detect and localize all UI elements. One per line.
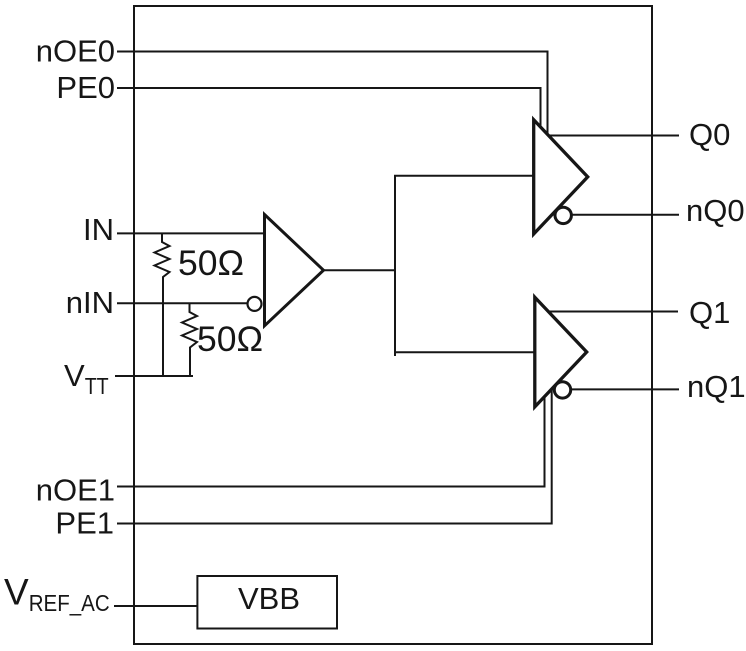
svg-text:PE0: PE0: [56, 70, 115, 105]
svg-text:PE1: PE1: [55, 506, 114, 541]
VBB block: [197, 576, 337, 629]
wire VTT: [115, 375, 193, 377]
wire U1 output: [324, 269, 396, 271]
svg-text:Q0: Q0: [689, 117, 730, 152]
svg-text:nQ0: nQ0: [686, 193, 745, 228]
svg-text:nOE1: nOE1: [36, 473, 115, 508]
svg-text:VTT: VTT: [64, 358, 109, 399]
wire PE1: [117, 390, 552, 524]
svg-text:nQ1: nQ1: [687, 369, 746, 404]
wire nOE1: [117, 397, 545, 487]
wire VREF_AC: [114, 605, 198, 607]
output buffer U2: [534, 120, 588, 234]
svg-text:Q1: Q1: [689, 295, 730, 330]
svg-text:50Ω: 50Ω: [178, 243, 244, 283]
svg-text:IN: IN: [83, 212, 114, 247]
wire Q1: [549, 311, 678, 313]
svg-text:VBB: VBB: [238, 581, 300, 616]
svg-text:nIN: nIN: [66, 285, 114, 320]
bubble U2: [555, 207, 571, 223]
resistor R1: [155, 233, 170, 376]
wire bus to U2: [394, 175, 534, 177]
outer box: [134, 6, 652, 644]
wire IN: [117, 232, 265, 234]
svg-text:VREF_AC: VREF_AC: [4, 572, 110, 617]
wire Q0: [548, 135, 679, 137]
bubble U3: [554, 382, 570, 398]
wire nQ0: [572, 214, 680, 216]
resistor R2: [182, 303, 197, 376]
wire nQ1: [571, 388, 679, 390]
wire PE0: [117, 88, 541, 128]
svg-text:50Ω: 50Ω: [197, 319, 263, 359]
wire bus to U3: [394, 351, 535, 353]
bubble U1 input: [248, 297, 262, 311]
output buffer U3: [535, 297, 587, 407]
svg-text:nOE0: nOE0: [36, 34, 115, 69]
node bus: [394, 176, 396, 357]
wire nIN: [117, 302, 248, 304]
receiver U1: [265, 215, 324, 326]
wire nOE0: [117, 52, 548, 136]
